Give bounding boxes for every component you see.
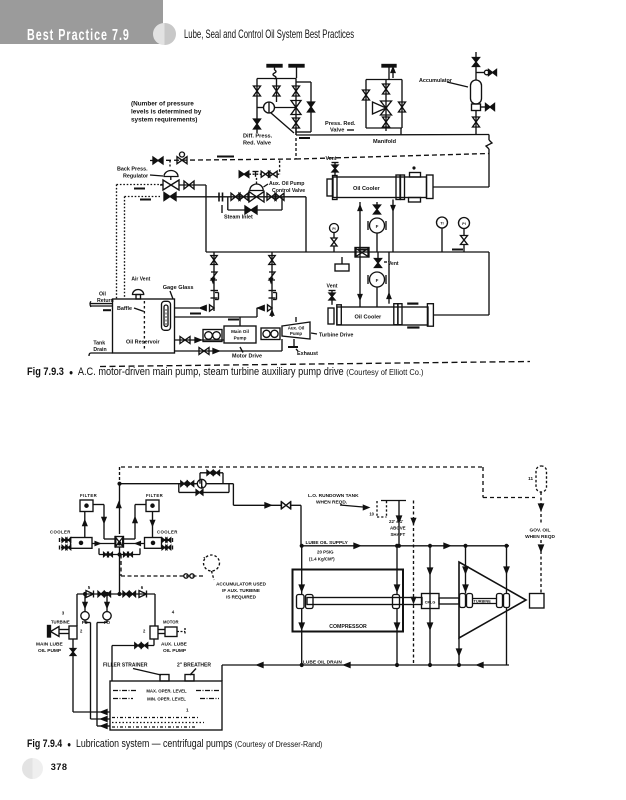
turbine left bearings [460, 594, 466, 608]
dashed accumulator circle [204, 555, 220, 571]
svg-text:levels is determined by: levels is determined by [131, 109, 202, 116]
valve solid right below accumulator [486, 104, 495, 111]
svg-text:ACCUMULATOR USED: ACCUMULATOR USED [216, 582, 267, 587]
svg-text:system requirements): system requirements) [131, 117, 197, 124]
main oil line [206, 251, 489, 253]
right bearing drain [396, 609, 398, 666]
manifold 1 bypass branch [296, 81, 311, 83]
dashed riser to pilot line [279, 161, 281, 175]
valve V2c [383, 117, 390, 127]
valve V1a [254, 86, 261, 96]
lower cooler flanges [394, 304, 398, 325]
manifold 2 left branch [365, 80, 367, 129]
svg-text:Aux. Oil: Aux. Oil [288, 326, 305, 331]
supply to header [291, 504, 302, 506]
svg-text:Manifold: Manifold [373, 139, 397, 145]
gage glass [162, 301, 171, 330]
manifold 2 bottom tie [366, 127, 402, 129]
pressure gauge PI right [459, 218, 470, 229]
dotted line left upper [117, 184, 164, 186]
aux oil pump turbine body [282, 322, 310, 339]
aux pump riser [295, 317, 297, 322]
page number [51, 762, 68, 772]
manifold 2 right branch [401, 80, 403, 129]
bottom dashed drain line [100, 362, 530, 367]
steam header [176, 196, 306, 198]
gov oil dashed drop [540, 492, 542, 525]
valve with test circle [484, 70, 489, 75]
svg-text:3: 3 [62, 611, 65, 616]
upper cooler bottom nozzle [409, 198, 421, 203]
svg-text:PI: PI [332, 227, 335, 231]
valve beside regulator [184, 181, 194, 189]
FO orifice left [84, 594, 86, 612]
transfer valve on main line [355, 248, 369, 258]
suction line into tank C [97, 725, 110, 727]
steam rack right drop [305, 197, 307, 252]
supply drop turbine left [465, 546, 467, 594]
valve solid on accumulator top [473, 58, 480, 67]
governor output box [530, 594, 545, 609]
oil supply riser [119, 484, 121, 534]
supply drop to right bearing [396, 546, 398, 595]
svg-text:2: 2 [80, 629, 83, 634]
twin valves right [123, 591, 129, 596]
header band [0, 0, 163, 44]
supply corner to rundown valve [206, 483, 233, 485]
shaft to turbine [439, 598, 459, 604]
dotted vertical left outer [116, 185, 118, 300]
gov oil capsule dashed [536, 466, 547, 492]
compressor right bearing block [393, 595, 400, 609]
svg-text:Valve: Valve [330, 128, 344, 134]
svg-text:1: 1 [186, 708, 189, 713]
svg-text:Vent: Vent [326, 156, 337, 162]
upper cooler right cap [427, 175, 434, 199]
main oil pump box [224, 326, 256, 343]
bypass lower branch [179, 483, 197, 485]
upper cooler right outlet [433, 186, 489, 188]
valve on main suction [180, 337, 190, 344]
valve V1d [293, 86, 300, 96]
svg-text:TI: TI [440, 222, 443, 226]
dashed elbow down [482, 467, 484, 498]
svg-text:WHEN REQD: WHEN REQD [525, 534, 555, 540]
steam inlet flange [218, 193, 220, 202]
riser junction [119, 547, 121, 594]
rundown tank top line [381, 500, 406, 502]
pilot cluster above control valve [239, 171, 249, 177]
pressure reducing valve PRV1 [291, 101, 301, 115]
steam bypass valve solid [245, 206, 257, 214]
svg-text:Drain: Drain [93, 347, 106, 353]
steam bypass leg [227, 197, 229, 210]
flow mark 2 [140, 199, 151, 201]
supply line to bypass [120, 483, 197, 485]
valve V2d [399, 102, 406, 112]
svg-text:Vent: Vent [388, 261, 399, 267]
upper cooler vent valve [334, 166, 336, 176]
cooler1 to transfer valve [92, 543, 115, 545]
caption figure 7.9.4 [27, 738, 322, 750]
orifice block [335, 264, 349, 271]
pigtail siphon under gauge 1 [273, 70, 276, 79]
svg-text:5: 5 [88, 585, 91, 590]
svg-text:OIL PUMP: OIL PUMP [38, 648, 62, 654]
valve under PI right [461, 236, 468, 245]
svg-text:COOLER: COOLER [50, 530, 71, 535]
motor dashed stub [177, 631, 185, 633]
svg-text:PI: PI [462, 222, 465, 226]
flow mark on header [299, 137, 310, 139]
valve V1e [293, 118, 300, 128]
upper cooler flanges [396, 175, 400, 200]
header title [27, 27, 130, 45]
svg-text:LUBE OIL SUPPLY: LUBE OIL SUPPLY [306, 540, 349, 546]
main pump casing [69, 626, 77, 639]
dashed drop to note [212, 571, 215, 580]
main pump shaft [59, 629, 69, 631]
lower filter circle [370, 272, 385, 287]
rundown drop to supply [398, 501, 400, 546]
coupling main pump [203, 330, 222, 342]
pipe into steam rack [179, 184, 206, 186]
lower cooler right cap [427, 304, 433, 327]
svg-text:FILTER: FILTER [80, 493, 98, 498]
manifold 1 right branch [295, 79, 297, 136]
svg-text:FILLER STRAINER: FILLER STRAINER [103, 663, 148, 669]
filter to lower cooler drop [376, 287, 378, 307]
lube oil supply header [301, 545, 509, 547]
svg-text:Oil Reservoir: Oil Reservoir [126, 340, 160, 346]
svg-text:20 PSIG: 20 PSIG [317, 550, 334, 555]
suction line into tank B [91, 718, 111, 720]
svg-text:OIL PUMP: OIL PUMP [163, 648, 187, 654]
leader to rundown tank [340, 505, 363, 507]
lower cooler top nozzle [407, 303, 418, 305]
valve above upper filter [374, 205, 381, 214]
min oper level [113, 698, 133, 700]
page number circle [22, 758, 44, 780]
dotted line left lower [125, 196, 161, 198]
svg-text:2" BREATHER: 2" BREATHER [177, 663, 211, 669]
dotted vertical left inner [124, 197, 126, 300]
upper filter right leg [392, 200, 394, 253]
turbine driver cone [51, 627, 60, 637]
svg-text:Red. Valve: Red. Valve [243, 141, 271, 147]
flow mark 1 [134, 188, 145, 190]
svg-text:Pump: Pump [290, 331, 303, 336]
check valve 6 [139, 591, 147, 598]
svg-text:Regulator: Regulator [123, 174, 149, 180]
svg-text:L.O. RUNDOWN TANK: L.O. RUNDOWN TANK [308, 493, 359, 499]
flow mark above pilot line [217, 156, 234, 158]
aux pump suction line [175, 350, 283, 352]
valve under P1 left [331, 238, 337, 246]
header right drop [154, 594, 156, 626]
check valve 5 [86, 591, 94, 598]
tank bottom hatch [112, 717, 200, 719]
riser from manifold1 bottom [295, 128, 297, 135]
gov oil dashed drop 2 [540, 540, 542, 593]
flow marks on main line [358, 249, 369, 251]
dashed drain from rundown [413, 501, 415, 666]
svg-text:Exhaust: Exhaust [297, 351, 318, 357]
steam valve pair right [267, 193, 276, 200]
flow mark discharge [190, 313, 201, 315]
header left drop [76, 594, 78, 626]
junction dots [118, 482, 121, 485]
pump discharge line lower [175, 316, 258, 318]
svg-text:Oil Cooler: Oil Cooler [353, 186, 381, 192]
pressure reducing valve PRV2 [381, 101, 392, 115]
header half circle [153, 23, 176, 46]
vent arrow at manifold 2 [392, 71, 394, 78]
cooler2 outer valves [162, 539, 172, 541]
svg-text:Oil Cooler: Oil Cooler [355, 315, 383, 321]
valve V2a [363, 90, 370, 100]
oil return pipe [90, 303, 113, 305]
relief discharge horn [373, 102, 387, 114]
diff pressure regulator circle [264, 102, 275, 113]
svg-text:4: 4 [172, 610, 175, 615]
svg-text:MAIN LUBE: MAIN LUBE [36, 642, 63, 648]
top dashed control line [121, 466, 483, 468]
steam valve pair left [231, 193, 240, 200]
upper filter left leg [359, 202, 361, 252]
accumulator top pipe [475, 52, 477, 80]
regulator diaphragm dome [164, 171, 178, 177]
cooler2 to transfer valve [124, 543, 145, 545]
transfer valve [115, 537, 124, 548]
control valve dome [250, 184, 263, 191]
vent valve lower filter [375, 259, 382, 268]
tank drain stub [91, 352, 113, 354]
compressor left bearing blocks [297, 595, 305, 609]
right return riser [488, 252, 490, 315]
svg-text:Diff. Press.: Diff. Press. [243, 134, 273, 140]
svg-text:COOLER: COOLER [157, 530, 178, 535]
turbine triangle [459, 562, 526, 638]
svg-text:Oil: Oil [99, 292, 106, 298]
lower cooler right outlet [433, 314, 489, 316]
filter2 drop to cooler2 [152, 512, 154, 538]
svg-text:IS REQUIRED: IS REQUIRED [226, 595, 257, 600]
svg-text:7: 7 [203, 556, 206, 561]
gauge tee-bar 2 [289, 65, 304, 68]
valve V1c [273, 86, 280, 96]
svg-text:GOV. OIL: GOV. OIL [530, 528, 551, 534]
pump discharge header [77, 593, 155, 595]
main pump suction drop [72, 639, 74, 712]
branch right below accumulator [481, 106, 486, 108]
dashed pilot line [150, 159, 296, 161]
thermometer T1 [437, 217, 448, 228]
dashed accumulator line [121, 575, 205, 577]
oil tank [110, 681, 222, 730]
gauge branch right of accumulator top [476, 72, 484, 74]
manifold 2 header [366, 79, 402, 81]
cooler1 outer valves [61, 539, 71, 541]
lower oil cooler shell [337, 307, 428, 325]
caption figure 7.9.3 [27, 366, 424, 378]
upper cooler top nozzle [410, 173, 421, 178]
aux pump shaft [158, 629, 165, 631]
upper cooler left cap [327, 179, 333, 196]
valve V2b [383, 84, 390, 94]
valve V1b solid drain [254, 119, 261, 129]
svg-text:COMPRESSOR: COMPRESSOR [329, 624, 367, 630]
upper oil cooler shell [333, 177, 427, 198]
svg-text:Back Press.: Back Press. [117, 167, 148, 173]
valve solid on steam line [164, 193, 176, 201]
main oil header [296, 134, 489, 137]
valve solid on pilot line [153, 157, 163, 164]
svg-text:CPLG: CPLG [425, 601, 436, 605]
drop right of compressor [429, 546, 431, 665]
svg-text:Tank: Tank [93, 341, 105, 347]
manifold 1 header [257, 78, 297, 80]
twin valves left [98, 591, 104, 596]
tank baffle dashed [143, 301, 145, 351]
angle valve B check [258, 305, 264, 310]
valves on bypass upper [207, 470, 213, 475]
svg-text:Steam Inlet: Steam Inlet [224, 215, 253, 221]
svg-text:Vent: Vent [327, 284, 338, 290]
svg-text:6: 6 [141, 585, 144, 590]
lower filter left leg [359, 252, 361, 307]
drain into tank [221, 665, 223, 681]
manifold 1 left branch [256, 79, 258, 120]
header subtitle [184, 27, 354, 41]
right droop with break symbol [488, 135, 490, 141]
valve V1f solid [308, 102, 315, 112]
bypass upper branch [199, 473, 201, 484]
svg-text:2: 2 [143, 629, 146, 634]
steam rack left drop [205, 185, 207, 252]
accumulator bottom block [472, 104, 481, 111]
cooler 2 box [145, 538, 162, 549]
filter2 inlet elbow [135, 504, 146, 506]
coupling aux pump [261, 328, 280, 340]
svg-text:Baffle: Baffle [117, 306, 132, 312]
gauge tee-bar 3 [382, 65, 396, 68]
gauge tee-bar 1 [267, 65, 282, 68]
pump discharge line upper [175, 307, 200, 309]
filler strainer fittings [160, 675, 169, 682]
turbine right bearings [497, 594, 503, 608]
lower cooler left cap [328, 308, 334, 324]
manifold 1 middle branch [276, 79, 278, 103]
svg-text:(Number of pressure: (Number of pressure [131, 101, 194, 108]
svg-text:(1.4 Kg/CM²): (1.4 Kg/CM²) [309, 557, 335, 562]
cooler 1 box [71, 538, 93, 549]
max oper level [113, 690, 137, 692]
twin valves on supply [181, 481, 187, 486]
rundown tank isolation valve [282, 502, 291, 509]
supply drop turbine right [506, 546, 508, 594]
filter 2 box [146, 500, 159, 512]
manifold 2 middle branch [385, 80, 387, 132]
motor box [165, 627, 177, 637]
lower cooler bottom nozzle [407, 326, 419, 328]
valve with circle on pilot line [177, 157, 187, 164]
angle valve A check [200, 305, 206, 310]
filter1 riser from cooler1 [84, 512, 86, 538]
fo drain drop right [106, 620, 108, 623]
dashed drop from manifold 1 [295, 138, 297, 159]
back pressure regulator valve body [163, 180, 179, 190]
svg-text:Control Valve: Control Valve [272, 188, 305, 194]
svg-text:Aux. Oil Pump: Aux. Oil Pump [269, 181, 304, 187]
pressure gauge P1 left [330, 224, 339, 233]
turbine shaft inner [473, 598, 497, 600]
svg-text:Motor Drive: Motor Drive [232, 354, 262, 360]
condensate drain B [271, 252, 273, 317]
filter1 outlet elbow [93, 504, 104, 506]
upper filter circle [370, 218, 385, 233]
main pump suction line [175, 339, 225, 341]
filter column upper [376, 202, 378, 205]
supply drop to left bearing [301, 546, 303, 595]
svg-text:Air Vent: Air Vent [131, 277, 150, 283]
main pump riser [239, 317, 241, 326]
lower filter right leg [388, 252, 390, 304]
svg-text:Main Oil: Main Oil [231, 329, 249, 334]
left bearing drain [301, 609, 303, 666]
leader to Diff. Press. Red. Valve label [271, 113, 294, 133]
compressor casing [293, 570, 404, 632]
fo drain drop left [84, 620, 86, 623]
valve on aux suction [199, 348, 209, 355]
svg-text:Accumulator: Accumulator [419, 78, 453, 84]
FO orifice right [106, 594, 108, 612]
leader to accumulator [447, 82, 468, 87]
svg-text:TURBINE: TURBINE [474, 599, 492, 604]
svg-text:TURBINE: TURBINE [51, 620, 70, 625]
turbine drains [458, 638, 460, 665]
svg-text:LUBE OIL DRAIN: LUBE OIL DRAIN [303, 660, 342, 666]
svg-text:SHAFT: SHAFT [391, 532, 406, 537]
svg-text:MAX. OPER. LEVEL: MAX. OPER. LEVEL [146, 689, 187, 694]
valve on bypass lower [196, 490, 203, 495]
svg-text:11: 11 [528, 476, 533, 481]
svg-text:Pump: Pump [234, 336, 247, 341]
svg-text:FILTER: FILTER [146, 493, 164, 498]
svg-text:Turbine Drive: Turbine Drive [319, 333, 353, 339]
filter 1 box [80, 500, 93, 512]
svg-text:22' ± 1': 22' ± 1' [389, 519, 403, 524]
accumulator bottom pipe [475, 111, 477, 136]
svg-text:F: F [376, 278, 379, 283]
bypass pump circle [197, 479, 206, 488]
lube oil drain header [222, 664, 509, 666]
oil reservoir tank [113, 299, 175, 353]
leader to regulator [150, 175, 163, 176]
svg-text:10: 10 [369, 512, 374, 517]
rundown tank dashed [376, 501, 378, 517]
coupling CPLG box [422, 594, 440, 609]
aux pump suction drop [153, 639, 155, 646]
aux oil pump control valve body [249, 192, 264, 202]
air vent mushroom [133, 290, 144, 295]
exhaust stub [293, 339, 295, 346]
svg-text:ABOVE: ABOVE [390, 526, 406, 531]
suction line into tank A [73, 711, 110, 713]
svg-text:MOTOR: MOTOR [163, 620, 179, 625]
cooler bottom bypass loop [98, 548, 100, 554]
svg-text:IF AUX. TURBINE: IF AUX. TURBINE [222, 588, 260, 593]
